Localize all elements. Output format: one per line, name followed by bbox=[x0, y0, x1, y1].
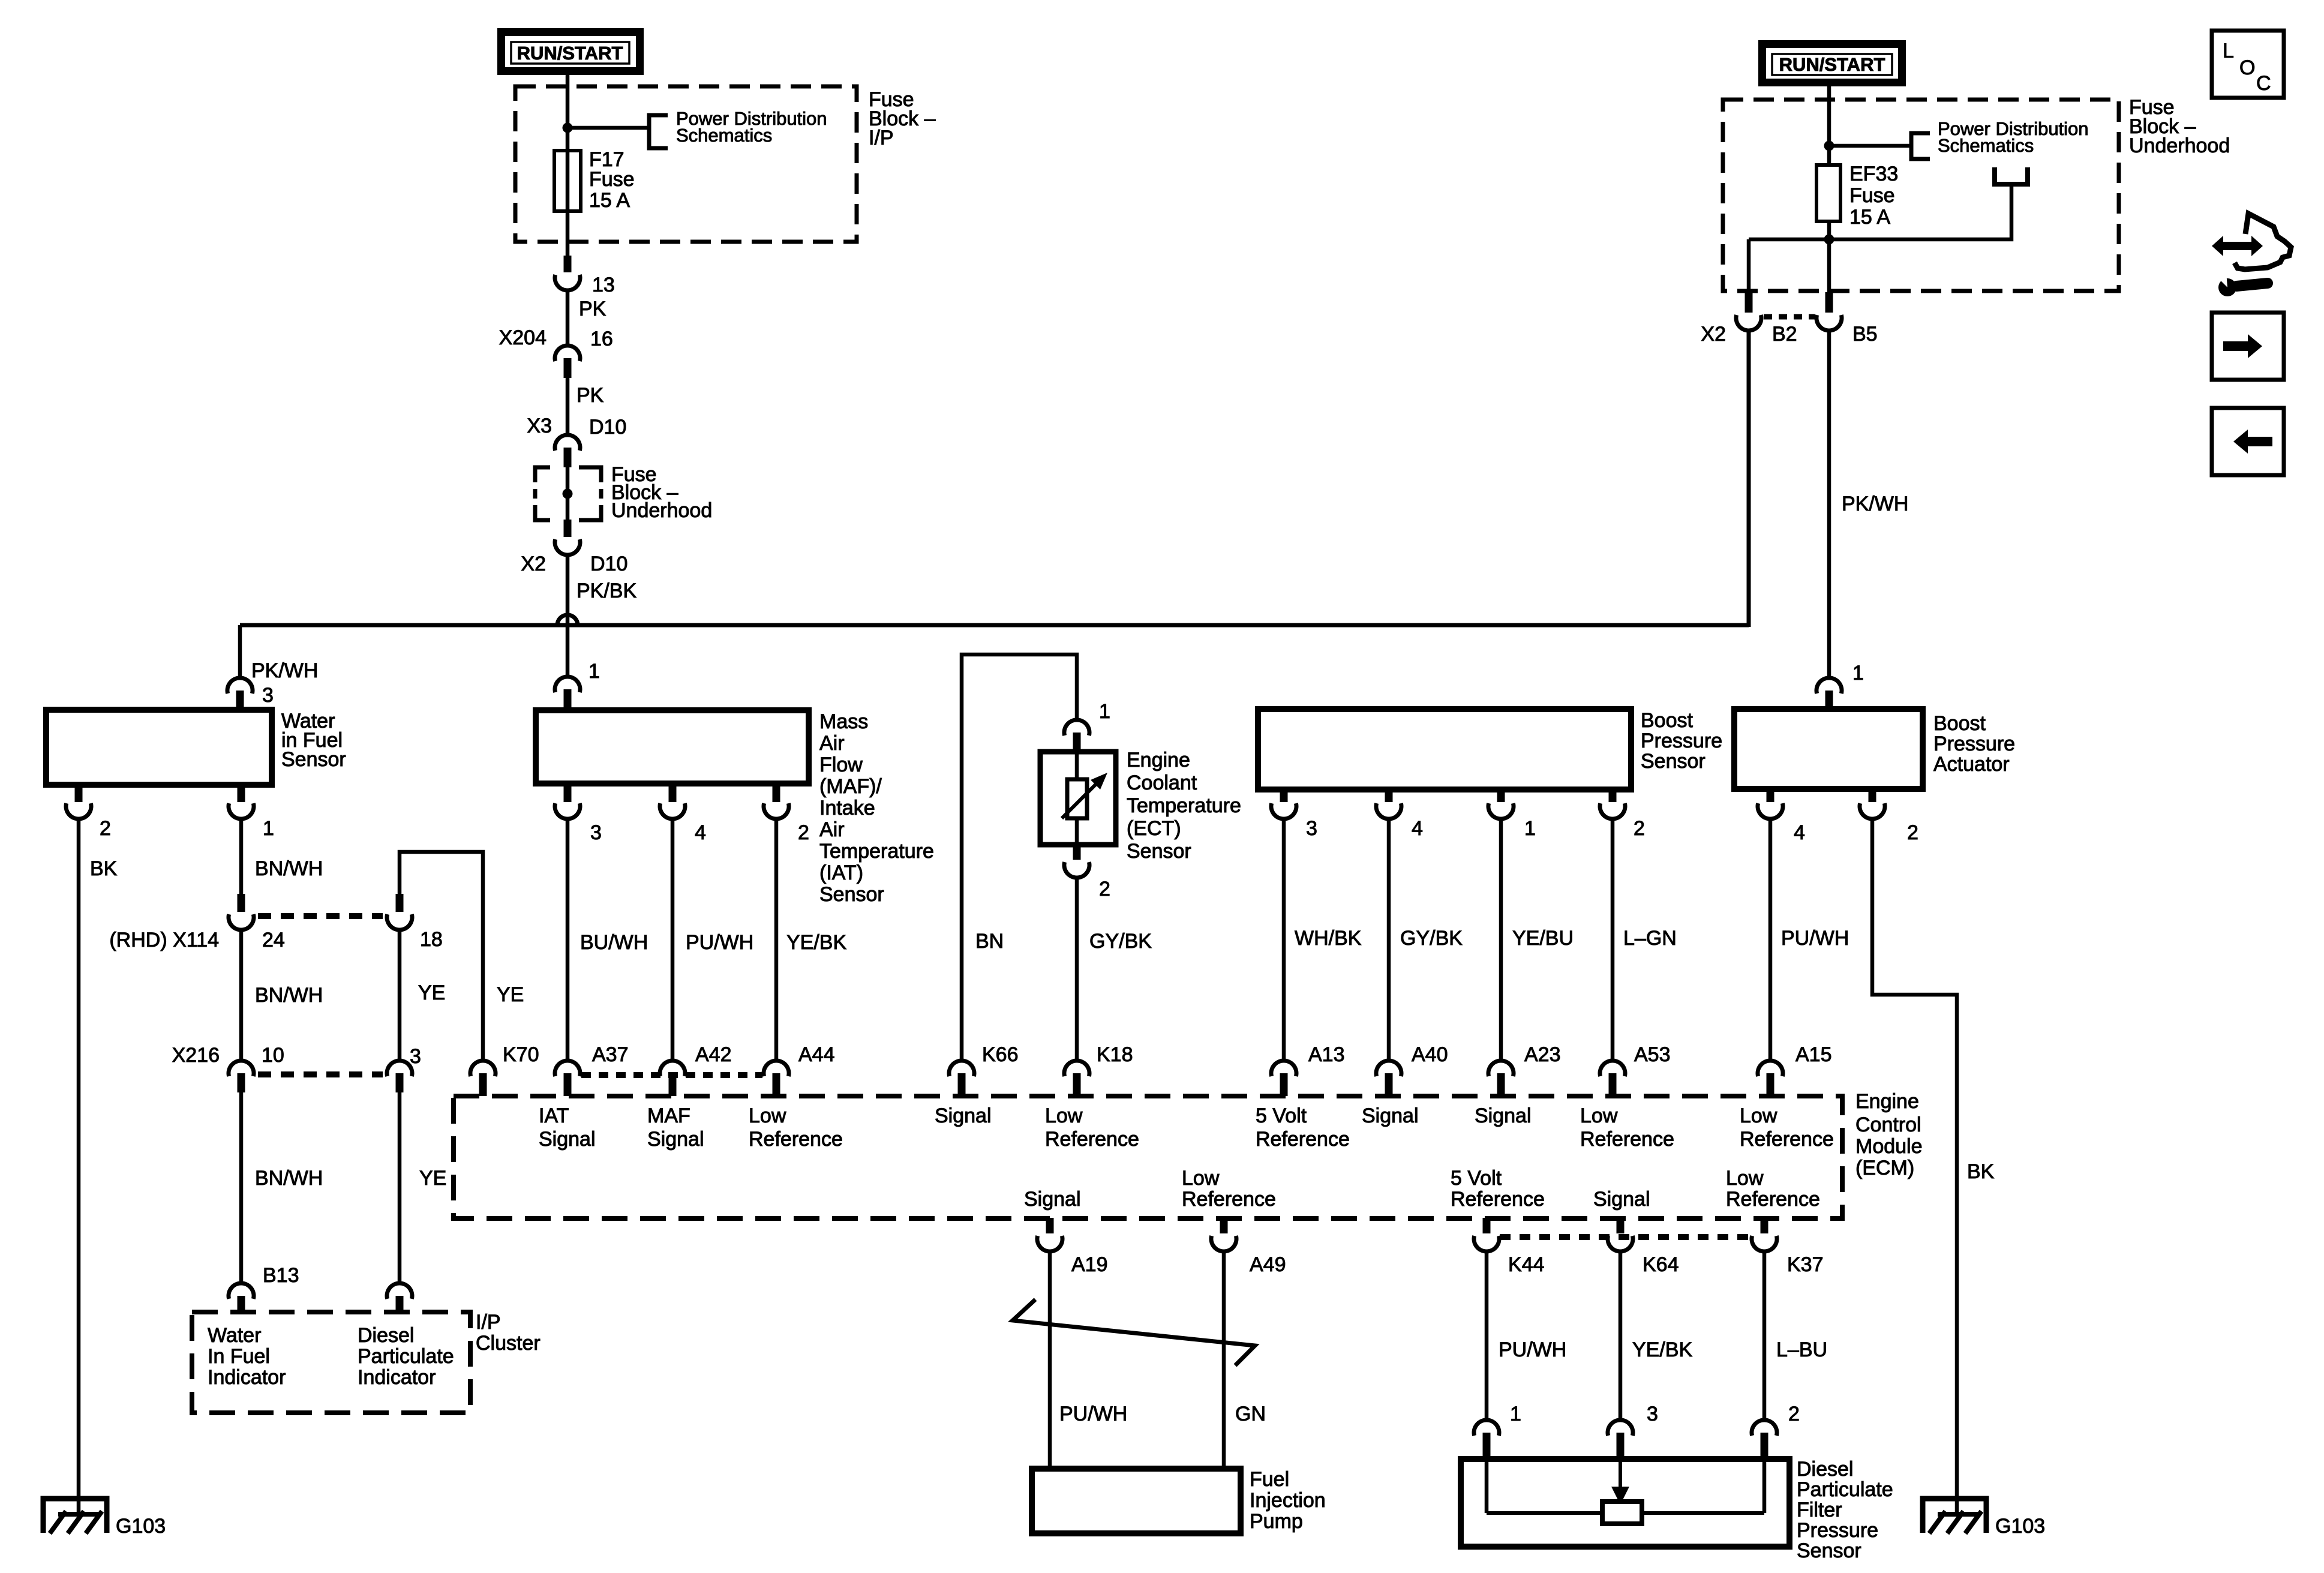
ECM pin A44 stub bbox=[773, 1073, 780, 1096]
wire EF33 to junction 2 bbox=[1827, 221, 1831, 293]
wire YE X114-18 to X216-3 bbox=[398, 930, 402, 1060]
RUN/START switch label box (right) bbox=[1762, 44, 1902, 83]
fuse EF33 symbol bbox=[1816, 165, 1840, 221]
wire YE/BK MAF-2 to A44 bbox=[774, 820, 779, 1060]
DPF pin 3 socket bbox=[1608, 1420, 1633, 1436]
svg-text:13: 13 bbox=[592, 274, 615, 296]
svg-text:3: 3 bbox=[1647, 1403, 1658, 1425]
svg-text:A42: A42 bbox=[695, 1043, 732, 1066]
wire PU/WH MAF-4 to A42 bbox=[671, 820, 675, 1060]
wire loop from K70 up and over to X114-18 bbox=[400, 852, 483, 1060]
svg-text:Fuse: Fuse bbox=[589, 168, 635, 191]
wire BN/WH water pin1 to X114-24 bbox=[239, 820, 244, 894]
svg-text:10: 10 bbox=[262, 1044, 284, 1067]
svg-text:O: O bbox=[2239, 56, 2255, 79]
ECM pin K70 stub bbox=[479, 1073, 487, 1096]
svg-text:Diesel: Diesel bbox=[1797, 1458, 1853, 1481]
Engine Control Module dashed box bbox=[454, 1096, 1842, 1218]
svg-text:3: 3 bbox=[590, 821, 602, 844]
svg-text:X3: X3 bbox=[527, 415, 552, 437]
connector X3 pin D10: socket bbox=[555, 435, 580, 451]
svg-text:I/P: I/P bbox=[869, 127, 894, 149]
svg-text:PK/BK: PK/BK bbox=[577, 580, 636, 602]
svg-text:1: 1 bbox=[1510, 1403, 1521, 1425]
actuator pin 4 stub bbox=[1767, 789, 1774, 802]
svg-text:2: 2 bbox=[1788, 1403, 1800, 1425]
svg-text:5 Volt: 5 Volt bbox=[1256, 1104, 1307, 1127]
actuator pin 1 stub bbox=[1825, 691, 1833, 709]
svg-text:YE/BK: YE/BK bbox=[1632, 1338, 1692, 1361]
bracket stub symbol (schematic reference) bbox=[1995, 167, 2028, 184]
wire YE/BK K64 to DPF sensor pin 3 bbox=[1619, 1252, 1623, 1419]
connector X114 pin 18 socket bbox=[387, 914, 412, 930]
bracket reference symbol (Power Distribution Schematics) bbox=[649, 115, 668, 148]
connector X3 pin D10: pin stub bbox=[564, 448, 572, 467]
svg-text:K37: K37 bbox=[1787, 1253, 1824, 1276]
wire BK actuator-2 to G103 right bbox=[1872, 820, 1957, 1514]
bracket reference symbol (right) bbox=[1911, 133, 1930, 159]
ECM pin A53 stub bbox=[1609, 1073, 1617, 1096]
fuse F17 symbol bbox=[554, 151, 581, 211]
svg-text:18: 18 bbox=[420, 928, 443, 951]
connector 13: pin stub bbox=[564, 256, 572, 272]
svg-text:Reference: Reference bbox=[1726, 1188, 1820, 1211]
ECT pin 2 socket bbox=[1064, 862, 1089, 878]
svg-text:Underhood: Underhood bbox=[611, 499, 712, 522]
svg-text:Signal: Signal bbox=[1593, 1188, 1650, 1211]
ECM pin A44 socket bbox=[764, 1061, 789, 1076]
svg-text:A15: A15 bbox=[1795, 1043, 1832, 1066]
svg-text:Particulate: Particulate bbox=[358, 1345, 454, 1368]
DPF pin 3 stub bbox=[1617, 1433, 1625, 1459]
svg-text:3: 3 bbox=[410, 1045, 421, 1068]
ECM pin A40 stub bbox=[1385, 1073, 1393, 1096]
svg-text:PU/WH: PU/WH bbox=[686, 931, 753, 954]
boost sensor pin 2 socket bbox=[1600, 803, 1625, 819]
junction to Power Distribution Schematics reference bbox=[568, 126, 647, 130]
MAF pin 4 stub bbox=[669, 784, 677, 802]
svg-text:Low: Low bbox=[1045, 1104, 1083, 1127]
Boost Pressure Actuator box bbox=[1734, 709, 1923, 789]
boost sensor pin 1 socket bbox=[1488, 803, 1514, 819]
svg-text:YE: YE bbox=[418, 981, 445, 1004]
svg-text:Low: Low bbox=[1726, 1167, 1764, 1190]
DPF pin 2 socket bbox=[1752, 1420, 1777, 1436]
MAF pin 2 stub bbox=[773, 784, 780, 802]
boost sensor pin 4 socket bbox=[1376, 803, 1401, 819]
svg-text:Reference: Reference bbox=[1256, 1128, 1350, 1151]
svg-text:Signal: Signal bbox=[539, 1128, 596, 1151]
svg-text:1: 1 bbox=[588, 660, 600, 683]
svg-text:3: 3 bbox=[262, 684, 274, 707]
svg-text:X2: X2 bbox=[1701, 323, 1726, 346]
svg-text:Signal: Signal bbox=[647, 1128, 704, 1151]
svg-text:4: 4 bbox=[1412, 817, 1423, 840]
svg-text:24: 24 bbox=[262, 929, 285, 951]
svg-text:D10: D10 bbox=[589, 416, 626, 439]
svg-text:GY/BK: GY/BK bbox=[1400, 927, 1463, 950]
DPF wiper arrow shaft bbox=[1619, 1459, 1622, 1488]
ground wire terminal G103 left bbox=[43, 1499, 107, 1533]
jump navigation icon: double arrow bbox=[2212, 236, 2263, 256]
dashed connector line X114 bbox=[258, 913, 383, 919]
svg-text:Sensor: Sensor bbox=[1127, 840, 1191, 863]
svg-text:A44: A44 bbox=[798, 1043, 835, 1066]
connector X216 pin 3 stub bbox=[396, 1073, 404, 1092]
ECM pin K66 stub bbox=[958, 1073, 966, 1096]
svg-text:Schematics: Schematics bbox=[676, 125, 772, 146]
harness break symbol across pump wires bbox=[1013, 1299, 1255, 1365]
svg-text:Fuel: Fuel bbox=[1250, 1468, 1289, 1491]
svg-text:4: 4 bbox=[695, 821, 706, 844]
wire from reference bracket down to bus bbox=[1749, 184, 2011, 239]
svg-text:C: C bbox=[2256, 72, 2271, 95]
svg-text:Mass: Mass bbox=[819, 710, 868, 733]
svg-text:Underhood: Underhood bbox=[2129, 134, 2230, 157]
fuse block I/P internal wire below F17 fuse bbox=[566, 151, 570, 257]
ECM pin A13 socket bbox=[1271, 1061, 1296, 1076]
ECM pin K70 socket bbox=[470, 1061, 496, 1076]
ECM pin A37 stub bbox=[564, 1073, 572, 1096]
svg-text:Low: Low bbox=[1182, 1167, 1220, 1190]
dashed connector line B2-B5 bbox=[1764, 314, 1815, 320]
connector water pin 3: pin stub bbox=[236, 691, 244, 710]
connector X2-B2 stub bbox=[1745, 292, 1753, 313]
svg-text:BN/WH: BN/WH bbox=[255, 984, 323, 1007]
svg-text:2: 2 bbox=[1099, 878, 1110, 900]
svg-text:Air: Air bbox=[819, 818, 845, 841]
svg-text:A19: A19 bbox=[1071, 1253, 1108, 1276]
svg-text:Sensor: Sensor bbox=[281, 748, 346, 771]
wire L-GN to A53 bbox=[1611, 820, 1615, 1060]
svg-text:G103: G103 bbox=[116, 1515, 166, 1538]
DPF pin 1 socket bbox=[1474, 1420, 1499, 1436]
svg-text:Pressure: Pressure bbox=[1797, 1519, 1878, 1542]
svg-text:15 A: 15 A bbox=[1849, 206, 1890, 229]
svg-text:Signal: Signal bbox=[935, 1104, 992, 1127]
connector diesel indicator stub bbox=[396, 1296, 404, 1313]
svg-text:Injection: Injection bbox=[1250, 1489, 1326, 1512]
svg-text:BU/WH: BU/WH bbox=[580, 931, 648, 954]
ECM pin A23 socket bbox=[1488, 1061, 1514, 1076]
svg-text:IAT: IAT bbox=[539, 1104, 569, 1127]
svg-text:1: 1 bbox=[1524, 817, 1536, 840]
node junction inside underhood block bbox=[563, 489, 573, 499]
ECM pin A42 stub bbox=[669, 1073, 677, 1096]
wire BN loop: K66 up over to ECT pin 1 bbox=[962, 655, 1077, 1060]
wire: RUN/START to Fuse Block I/P (F17 circuit) bbox=[566, 75, 570, 151]
svg-text:(IAT): (IAT) bbox=[819, 861, 863, 884]
svg-text:Signal: Signal bbox=[1362, 1104, 1419, 1127]
svg-text:B13: B13 bbox=[263, 1264, 299, 1287]
svg-text:(ECT): (ECT) bbox=[1127, 817, 1181, 840]
svg-text:PU/WH: PU/WH bbox=[1499, 1338, 1566, 1361]
Boost Pressure Actuator connector 1 socket bbox=[1816, 678, 1842, 694]
svg-text:EF33: EF33 bbox=[1849, 163, 1898, 185]
wire GY/BK ECT-2 to K18 bbox=[1075, 879, 1079, 1060]
wire GY/BK to A40 bbox=[1387, 820, 1391, 1060]
Mass Air Flow sensor box bbox=[536, 710, 809, 784]
wire BN/WH X114-24 to X216-10 bbox=[239, 930, 244, 1060]
svg-text:Boost: Boost bbox=[1641, 709, 1693, 732]
svg-text:5 Volt: 5 Volt bbox=[1451, 1167, 1502, 1190]
water sensor pin 1 stub bbox=[238, 785, 245, 802]
ECM pin A23 stub bbox=[1497, 1073, 1505, 1096]
svg-text:4: 4 bbox=[1794, 821, 1805, 844]
svg-text:A49: A49 bbox=[1250, 1253, 1286, 1276]
wire PK/BK from X2 down to MAF pin 1 bbox=[566, 555, 570, 676]
wire PK from connector 13 to X204 bbox=[566, 291, 570, 345]
ECM pin K37 socket bbox=[1752, 1236, 1777, 1251]
MAF pin 3 socket bbox=[555, 803, 580, 819]
boost sensor pin 2 stub bbox=[1609, 789, 1617, 802]
connector X114 pin 18 stub bbox=[396, 894, 404, 912]
connector X216 pin 10 stub bbox=[238, 1073, 245, 1092]
boost sensor pin 3 socket bbox=[1271, 803, 1296, 819]
svg-text:GY/BK: GY/BK bbox=[1089, 930, 1152, 953]
ECM pin K44 stub bbox=[1483, 1218, 1491, 1233]
svg-text:(MAF)/: (MAF)/ bbox=[819, 775, 882, 798]
jump navigation icon: wrench bbox=[2218, 278, 2236, 296]
svg-text:Reference: Reference bbox=[1740, 1128, 1834, 1151]
svg-text:Reference: Reference bbox=[1182, 1188, 1276, 1211]
Boost Pressure Sensor box bbox=[1258, 709, 1631, 789]
wire PK/WH B2 to bus bbox=[1747, 331, 1751, 627]
ECT variable arrow bbox=[1062, 780, 1100, 818]
svg-text:BN: BN bbox=[975, 930, 1004, 953]
svg-text:Indicator: Indicator bbox=[358, 1366, 436, 1389]
svg-text:1: 1 bbox=[263, 817, 274, 840]
svg-text:Reference: Reference bbox=[1045, 1128, 1139, 1151]
svg-text:L: L bbox=[2223, 40, 2234, 62]
DPF pin 1 stub bbox=[1483, 1433, 1491, 1459]
wire PU/WH actuator-4 to A15 bbox=[1768, 820, 1773, 1060]
svg-text:BK: BK bbox=[90, 857, 118, 880]
Water in Fuel Sensor box bbox=[46, 710, 272, 785]
svg-text:Reference: Reference bbox=[1580, 1128, 1674, 1151]
svg-text:Schematics: Schematics bbox=[1938, 135, 2034, 156]
actuator pin 2 socket bbox=[1860, 803, 1885, 819]
Fuse Block - Underhood dashed boundary bbox=[1723, 100, 2119, 291]
connector diesel indicator socket bbox=[387, 1283, 412, 1299]
wire PK/WH down to Water in Fuel Sensor pin 3 bbox=[238, 625, 242, 677]
ECM pin K64 socket bbox=[1608, 1236, 1633, 1251]
ECM pin K18 stub bbox=[1073, 1073, 1081, 1096]
svg-text:X204: X204 bbox=[499, 326, 547, 349]
svg-text:YE/BU: YE/BU bbox=[1512, 927, 1574, 950]
connector X114 pin 24 stub bbox=[238, 894, 245, 912]
ECM pin A15 socket bbox=[1758, 1061, 1783, 1076]
connector 13: socket bbox=[555, 275, 580, 290]
connector B13 stub bbox=[238, 1296, 245, 1313]
DPF internal potentiometer track bbox=[1487, 1511, 1764, 1515]
svg-text:(ECM): (ECM) bbox=[1855, 1157, 1914, 1179]
connector X2 pin D10: socket bbox=[555, 539, 580, 555]
svg-text:Particulate: Particulate bbox=[1797, 1478, 1893, 1501]
crossover hop at bus and PK/BK wire bbox=[557, 615, 578, 625]
svg-text:WH/BK: WH/BK bbox=[1295, 927, 1362, 950]
svg-text:B2: B2 bbox=[1772, 323, 1797, 346]
svg-text:Temperature: Temperature bbox=[1127, 794, 1241, 817]
node junction EF33 feed bbox=[1824, 141, 1834, 151]
svg-text:Intake: Intake bbox=[819, 797, 875, 819]
Fuse Block - I/P dashed boundary bbox=[515, 86, 857, 242]
MAF/IAT sensor pin1 connector socket bbox=[555, 677, 580, 692]
ECM pin A13 stub bbox=[1280, 1073, 1288, 1096]
svg-text:PU/WH: PU/WH bbox=[1059, 1403, 1127, 1425]
wire B2 branch down inside fuse block bbox=[1747, 239, 1751, 293]
Fuel Injection Pump box bbox=[1032, 1469, 1241, 1533]
svg-text:2: 2 bbox=[1907, 821, 1918, 844]
MAF pin 3 stub bbox=[564, 784, 572, 802]
svg-text:In Fuel: In Fuel bbox=[208, 1345, 270, 1368]
svg-text:Low: Low bbox=[749, 1104, 786, 1127]
wire YE/BU to A23 bbox=[1499, 820, 1503, 1060]
ECM pin K44 socket bbox=[1474, 1236, 1499, 1251]
I/P Cluster dashed box bbox=[192, 1312, 470, 1413]
svg-text:X2: X2 bbox=[521, 553, 546, 575]
wire YE X216-3 to diesel indicator bbox=[398, 1092, 402, 1283]
svg-text:PK/WH: PK/WH bbox=[251, 659, 318, 682]
junction wire to Power Distribution Schematics (right) bbox=[1829, 144, 1909, 148]
RUN/START switch label box (left) bbox=[502, 32, 640, 71]
svg-text:PU/WH: PU/WH bbox=[1781, 927, 1849, 950]
node junction at B5 wire bbox=[1824, 235, 1834, 245]
svg-text:3: 3 bbox=[1306, 817, 1317, 840]
svg-text:Engine: Engine bbox=[1127, 749, 1190, 772]
svg-text:Engine: Engine bbox=[1855, 1090, 1919, 1113]
svg-text:(RHD) X114: (RHD) X114 bbox=[109, 929, 219, 951]
Diesel Particulate Filter Pressure Sensor box bbox=[1461, 1459, 1789, 1547]
svg-text:Flow: Flow bbox=[819, 754, 863, 776]
ground terminal G103 right bbox=[1923, 1499, 1986, 1533]
svg-text:1: 1 bbox=[1099, 700, 1110, 723]
ECM pin A19 socket bbox=[1037, 1236, 1062, 1251]
svg-text:Temperature: Temperature bbox=[819, 840, 934, 863]
wire BU/WH MAF-3 to A37 bbox=[566, 820, 570, 1060]
ECM pin K37 stub bbox=[1761, 1218, 1768, 1233]
svg-text:MAF: MAF bbox=[647, 1104, 690, 1127]
svg-text:Coolant: Coolant bbox=[1127, 772, 1197, 794]
svg-text:PK: PK bbox=[577, 384, 604, 407]
wire through ECT sensor bbox=[1075, 752, 1079, 845]
wire L-BU K37 to DPF sensor pin 2 bbox=[1762, 1252, 1767, 1419]
back arrow box bbox=[2212, 408, 2284, 475]
svg-text:YE: YE bbox=[419, 1167, 446, 1190]
ECT pin 2 stub bbox=[1073, 845, 1081, 860]
svg-text:Water: Water bbox=[208, 1324, 261, 1347]
ECM pin A53 socket bbox=[1600, 1061, 1625, 1076]
connector B13 socket bbox=[229, 1283, 254, 1299]
svg-text:BN/WH: BN/WH bbox=[255, 1167, 323, 1190]
svg-text:BN/WH: BN/WH bbox=[255, 857, 323, 880]
svg-text:Diesel: Diesel bbox=[358, 1324, 414, 1347]
svg-text:1: 1 bbox=[1852, 662, 1864, 685]
connector water pin 3: socket bbox=[227, 678, 253, 694]
wire WH/BK to A13 bbox=[1282, 820, 1286, 1060]
svg-text:K66: K66 bbox=[982, 1043, 1019, 1066]
svg-text:A53: A53 bbox=[1634, 1043, 1671, 1066]
water sensor pin 1 socket bbox=[229, 803, 254, 819]
connector X204 pin 16: pin stub bbox=[564, 358, 572, 378]
wire PU/WH K44 to DPF sensor pin 1 bbox=[1485, 1252, 1489, 1419]
MAF pin 4 socket bbox=[660, 803, 685, 819]
svg-text:Pressure: Pressure bbox=[1933, 733, 2015, 755]
connector X204 pin 16: socket bbox=[555, 346, 580, 361]
jump navigation icon: component outline bbox=[2235, 214, 2291, 269]
DPF internal pin2 wire bbox=[1762, 1459, 1767, 1513]
wire PK/WH B5 to actuator pin 1 bbox=[1827, 331, 1831, 677]
svg-text:Fuse: Fuse bbox=[1849, 184, 1895, 207]
wire RUN/START to EF33 bbox=[1827, 86, 1831, 165]
svg-text:A37: A37 bbox=[592, 1043, 629, 1066]
node junction at F17 feed bbox=[563, 123, 573, 133]
svg-text:B5: B5 bbox=[1852, 323, 1878, 346]
actuator pin 4 socket bbox=[1758, 803, 1783, 819]
ECM pin A37 socket bbox=[555, 1061, 580, 1076]
ECM pin A40 socket bbox=[1376, 1061, 1401, 1076]
svg-text:I/P: I/P bbox=[476, 1311, 501, 1334]
svg-text:PK: PK bbox=[579, 298, 606, 320]
water sensor pin 2 stub bbox=[75, 785, 83, 802]
wire BK from water pin 2 to G103 bbox=[77, 820, 81, 1514]
svg-text:Module: Module bbox=[1855, 1135, 1923, 1158]
svg-text:Signal: Signal bbox=[1024, 1188, 1081, 1211]
svg-text:A23: A23 bbox=[1524, 1043, 1561, 1066]
svg-text:Pump: Pump bbox=[1250, 1510, 1303, 1533]
ECT thermistor element bbox=[1067, 779, 1087, 818]
svg-text:Signal: Signal bbox=[1475, 1104, 1532, 1127]
connector X216 pin 3 socket bbox=[387, 1061, 412, 1076]
ECM pin A19 stub bbox=[1046, 1218, 1054, 1233]
svg-text:RUN/START: RUN/START bbox=[517, 43, 623, 64]
ECT pin 1 connector socket bbox=[1064, 720, 1089, 736]
actuator pin 2 stub bbox=[1869, 789, 1876, 802]
ECM pin A49 stub bbox=[1220, 1218, 1228, 1233]
ECM pin K64 stub bbox=[1617, 1218, 1625, 1233]
horizontal bus wire PK/WH (B2 feed) bbox=[240, 623, 1749, 628]
connector B5 socket bbox=[1816, 315, 1842, 331]
svg-text:2: 2 bbox=[100, 817, 111, 840]
water sensor pin 2 socket bbox=[66, 803, 91, 819]
DPF potentiometer element bbox=[1602, 1502, 1642, 1524]
ECM pin K66 socket bbox=[949, 1061, 974, 1076]
dashed connector line X216 bbox=[258, 1071, 383, 1077]
svg-text:A40: A40 bbox=[1412, 1043, 1448, 1066]
svg-text:2: 2 bbox=[798, 821, 809, 844]
connector X2-B2 socket bbox=[1736, 315, 1761, 331]
dashed connector line A37-A44 bbox=[581, 1072, 762, 1078]
DPF internal pin1 wire bbox=[1485, 1459, 1489, 1513]
svg-text:Cluster: Cluster bbox=[476, 1332, 541, 1355]
Fuse Block - Underhood pass-through dashed box bbox=[535, 467, 601, 520]
wire through underhood fuse block bbox=[566, 467, 570, 521]
svg-text:15 A: 15 A bbox=[589, 189, 630, 212]
ECM pin A15 stub bbox=[1767, 1073, 1774, 1096]
svg-text:K44: K44 bbox=[1508, 1253, 1545, 1276]
ECM pin A42 socket bbox=[660, 1061, 685, 1076]
wire PU/WH A19 to fuel injection pump bbox=[1048, 1252, 1052, 1469]
svg-text:K18: K18 bbox=[1097, 1043, 1133, 1066]
svg-text:Boost: Boost bbox=[1933, 712, 1986, 735]
svg-text:Pressure: Pressure bbox=[1641, 730, 1722, 752]
svg-text:Sensor: Sensor bbox=[819, 883, 884, 906]
svg-text:YE/BK: YE/BK bbox=[786, 931, 846, 954]
boost sensor pin 1 stub bbox=[1497, 789, 1505, 802]
svg-text:GN: GN bbox=[1235, 1403, 1266, 1425]
MAF pin 1 stub bbox=[564, 689, 572, 710]
forward arrow box bbox=[2212, 313, 2284, 380]
